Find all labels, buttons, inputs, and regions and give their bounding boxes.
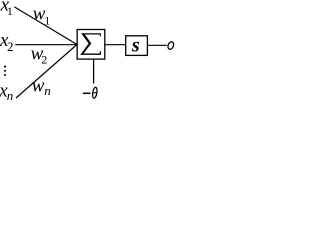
sigma symbol [80,33,101,55]
vertical ellipsis [4,66,6,68]
wire wn: input xn to summation node [16,45,77,99]
wire: sigma box to s box [105,44,126,46]
svg-text:1: 1 [44,14,50,28]
summation unit box U1 [77,30,105,60]
wire: s box to output [147,44,166,46]
wire w1: input x1 to summation node [14,7,77,45]
threshold label minus theta [83,92,91,94]
wire w2: input x2 to summation node [15,44,77,46]
svg-text:1: 1 [7,4,13,18]
svg-text:s: s [131,34,140,56]
svg-text:2: 2 [41,52,47,66]
svg-text:n: n [7,88,14,103]
theta glyph [92,87,98,99]
output label o [167,41,175,50]
threshold wire below sigma box [93,59,95,84]
svg-text:2: 2 [7,39,14,54]
svg-text:w: w [32,76,45,97]
activation unit box s [126,36,148,56]
svg-text:n: n [44,83,51,98]
